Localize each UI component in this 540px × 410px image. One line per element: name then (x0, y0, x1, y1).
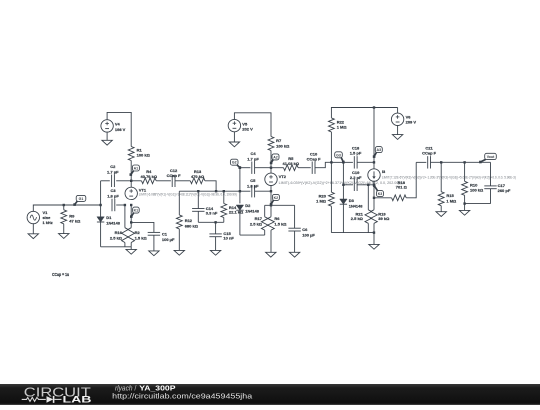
wire cathode column (130, 205, 132, 228)
node junction R21 top (367, 184, 369, 186)
svg-text:LIMIT(-6.039*(V(K2)-V(G2))^2+6: LIMIT(-6.039*(V(K2)-V(G2))^2+66.371*(V(K… (279, 181, 400, 185)
node label G2 (230, 159, 241, 169)
svg-text:470 kΩ: 470 kΩ (191, 174, 205, 179)
resistor R16 (110, 228, 128, 247)
node junction R14 top (223, 190, 225, 192)
svg-text:R2: R2 (135, 230, 141, 235)
wire V6 top (397, 108, 399, 114)
wire output row (416, 161, 426, 163)
svg-text:40.76 kΩ: 40.76 kΩ (141, 174, 158, 179)
svg-text:LIMIT(-6.088*(V(K1)-V(G1))^2+6: LIMIT(-6.088*(V(K1)-V(G1))^2+68.111*(V(K… (139, 193, 237, 197)
svg-text:1 MΩ: 1 MΩ (337, 125, 348, 130)
capacitor C5 (240, 178, 271, 197)
wire D2 bottom rail (240, 234, 265, 236)
ground under C15 (210, 250, 220, 255)
svg-text:100 kΩ: 100 kΩ (276, 143, 290, 148)
svg-text:Vout: Vout (487, 155, 495, 159)
svg-text:10 nF: 10 nF (223, 236, 234, 241)
resistor R13 (190, 169, 216, 191)
svg-text:1.5 kΩ: 1.5 kΩ (135, 235, 148, 240)
capacitor C14 (192, 191, 218, 222)
ground under R9 (59, 234, 69, 239)
resistor R12 (176, 191, 198, 250)
wire grid row G1 (64, 204, 101, 206)
capacitor C10 (307, 151, 332, 174)
behavioral source VT1 (125, 187, 237, 199)
svg-text:R9: R9 (69, 213, 75, 218)
ground under C1 (149, 251, 159, 256)
svg-text:R20: R20 (319, 193, 327, 198)
svg-text:A2: A2 (273, 155, 278, 159)
ground under V4 (102, 132, 112, 145)
capacitor C12 (167, 168, 191, 187)
svg-text:47 kΩ: 47 kΩ (69, 219, 81, 224)
svg-text:100 kΩ: 100 kΩ (137, 153, 151, 158)
wire grid2 column (239, 168, 241, 204)
wire grid column up to C2 (100, 181, 102, 205)
wire R21 column (367, 185, 369, 210)
svg-text:C6: C6 (302, 227, 308, 232)
svg-text:1 MΩ: 1 MΩ (446, 198, 457, 203)
node label K3 (373, 184, 384, 196)
svg-text:VT2: VT2 (279, 174, 287, 179)
svg-text:2.5 kΩ: 2.5 kΩ (250, 221, 263, 226)
node junction C1 tap (130, 221, 132, 223)
node label Vout (479, 153, 496, 163)
wire cathode3 column (373, 185, 375, 210)
wire V1 top to grid row (33, 205, 63, 212)
wire R16 column (124, 205, 126, 228)
wire bottom rail stage3 (331, 232, 374, 234)
node label A3 (373, 147, 383, 158)
node junction plate A2 (270, 167, 272, 169)
node junction D3 mid (342, 184, 344, 186)
svg-text:A3: A3 (377, 148, 382, 152)
ground under stage3 (369, 233, 379, 250)
svg-text:K1: K1 (134, 209, 139, 213)
svg-text:198 V: 198 V (115, 127, 126, 132)
svg-text:V5: V5 (242, 121, 248, 126)
node junction C15 top (214, 221, 216, 223)
node junction cathode K1 (130, 204, 132, 206)
node junction V1/R9 row (63, 204, 65, 206)
behavioral current source I3 (368, 169, 516, 181)
svg-text:41.03 kΩ: 41.03 kΩ (283, 161, 300, 166)
resistor R1 (128, 147, 150, 188)
svg-text:G1: G1 (79, 197, 84, 201)
node junction plate A1 (130, 180, 132, 182)
wire C14/R14 bottom rail (198, 221, 224, 223)
resistor R7 (268, 137, 290, 174)
svg-text:100 µF: 100 µF (302, 232, 315, 237)
wire R17 column (264, 205, 266, 217)
voltage source V1 (sine 1 kHz input) (27, 210, 53, 225)
svg-text:1.5 pF: 1.5 pF (350, 151, 362, 156)
svg-text:1.7 pF: 1.7 pF (107, 169, 119, 174)
svg-text:1 MΩ: 1 MΩ (316, 199, 327, 204)
ground under R2/R16 (126, 247, 136, 254)
ground under R6 (266, 230, 276, 257)
wire bottom rail stage1 (101, 246, 132, 248)
node junction grid3 (330, 161, 332, 163)
svg-text:701 Ω: 701 Ω (396, 185, 408, 190)
wire interstage row (179, 190, 240, 192)
node junction R16 top (124, 204, 126, 206)
node junction D3 top (342, 161, 344, 163)
resistor R9 (61, 205, 81, 234)
svg-text:1.8 pF: 1.8 pF (107, 193, 119, 198)
svg-text:http://circuitlab.com/ce9a4594: http://circuitlab.com/ce9a459455jha (112, 392, 253, 401)
logo diode glyph (47, 396, 54, 403)
ground under C6 (289, 252, 299, 257)
svg-text:CCap F: CCap F (167, 173, 182, 178)
svg-text:CCap F: CCap F (307, 157, 322, 162)
node junction cathode2 row (270, 190, 272, 192)
ground under V1 (28, 223, 38, 238)
ground under V6 (392, 125, 402, 139)
svg-text:R15: R15 (446, 193, 454, 198)
svg-text:1N4148: 1N4148 (349, 204, 363, 209)
svg-text:1 kHz: 1 kHz (43, 220, 53, 225)
svg-text:R7: R7 (276, 138, 282, 143)
diode D1 (97, 205, 121, 247)
node label K2 (270, 194, 280, 205)
wire V4 to R1 (107, 112, 131, 146)
node junction K2 tap (270, 204, 272, 206)
resistor R21 (351, 210, 372, 233)
svg-text:2.2 pF: 2.2 pF (350, 175, 362, 180)
svg-text:C1: C1 (162, 231, 168, 236)
svg-text:2.5 kΩ: 2.5 kΩ (351, 216, 364, 221)
svg-text:1.7 pF: 1.7 pF (247, 156, 259, 161)
capacitor C18 (343, 145, 374, 168)
capacitor C4 (240, 151, 271, 174)
node junction C14 top (197, 190, 199, 192)
svg-text:R12: R12 (185, 218, 193, 223)
resistor R6 (268, 216, 288, 230)
wire V5 to R7 (234, 113, 271, 137)
resistor R17 (250, 216, 268, 235)
svg-text:CCap F: CCap F (422, 151, 437, 156)
capacitor C21 (422, 146, 490, 169)
node junction rail3 (373, 231, 375, 233)
ground under R10 (459, 204, 469, 216)
wire I3 bottom (373, 181, 375, 185)
svg-text:202 V: 202 V (242, 127, 253, 132)
svg-text:R16: R16 (115, 230, 123, 235)
logo resistor glyph (22, 397, 46, 401)
svg-text:680 kΩ: 680 kΩ (185, 223, 199, 228)
resistor R15 (438, 162, 457, 211)
svg-text:1N4148: 1N4148 (245, 209, 259, 214)
capacitor C19 (343, 170, 374, 191)
svg-text:R17: R17 (255, 216, 263, 221)
diode D2 (236, 203, 260, 235)
node label K1 (130, 207, 139, 218)
svg-text:100 µF: 100 µF (162, 237, 175, 242)
resistor R10 (462, 162, 484, 203)
node junction R10 top (463, 161, 465, 163)
svg-text:K2: K2 (274, 196, 279, 200)
wire plate3 column (373, 108, 375, 170)
annotation CCap value (52, 272, 69, 277)
svg-text:1.8 pF: 1.8 pF (247, 183, 259, 188)
svg-text:A1: A1 (134, 166, 139, 170)
wire R10/C17 bottom rail (465, 203, 491, 205)
svg-text:100 kΩ: 100 kΩ (470, 188, 484, 193)
svg-text:CCap = 1u: CCap = 1u (52, 272, 69, 277)
node junction R15 top (440, 161, 442, 163)
footer credits (0, 384, 430, 405)
resistor R19 (371, 210, 390, 233)
capacitor C3 (107, 188, 125, 211)
footer bar (0, 384, 540, 405)
node label A1 (130, 165, 140, 176)
voltage source V4 (101, 120, 126, 132)
svg-text:R22: R22 (337, 119, 345, 124)
resistor R20 (316, 162, 334, 232)
wire K2 tap row (265, 204, 295, 206)
svg-text:G2: G2 (232, 161, 237, 165)
wire cathode2 column (270, 185, 272, 217)
resistor R4 (131, 169, 171, 184)
node junction R10 bottom (463, 202, 465, 204)
node junction R13 drop (215, 190, 217, 192)
voltage source V6 (391, 113, 416, 125)
capacitor C15 (209, 222, 234, 250)
ground under R12 (174, 250, 184, 255)
svg-text:LIMIT(7.12E-6*(V(K3)-V(G3))^2+: LIMIT(7.12E-6*(V(K3)-V(G3))^2+-1.20E-3*(… (382, 176, 516, 180)
wire top rail stage3 (331, 108, 397, 118)
voltage source V5 (228, 119, 253, 131)
ground under V5 (229, 132, 239, 147)
svg-text:2.5 kΩ: 2.5 kΩ (110, 235, 123, 240)
resistor R2 (128, 228, 148, 247)
svg-text:V4: V4 (115, 122, 121, 127)
wire grid3 row (331, 161, 343, 163)
node G1 junction (99, 204, 101, 206)
node junction grid2 row (239, 190, 241, 192)
svg-text:D3: D3 (349, 198, 355, 203)
node junction cathode3 (373, 184, 375, 186)
behavioral source VT2 (265, 173, 400, 185)
node label A2 (270, 154, 279, 164)
node junction plate A3 (373, 161, 375, 163)
node junction G2 top (239, 167, 241, 169)
svg-text:209 V: 209 V (406, 120, 417, 125)
capacitor C1 (148, 231, 175, 251)
svg-text:D2: D2 (245, 203, 251, 208)
svg-text:K3: K3 (378, 192, 383, 196)
svg-text:39 kΩ: 39 kΩ (378, 216, 390, 221)
svg-text:3.3 nF: 3.3 nF (206, 211, 218, 216)
ground under R15 (436, 212, 446, 217)
node junction top rail (373, 106, 375, 108)
CircuitLab logo (0, 384, 110, 405)
diode D3 (340, 162, 364, 232)
resistor R5 (271, 156, 311, 171)
svg-text:260 pF: 260 pF (498, 188, 511, 193)
resistor R18 (374, 162, 416, 200)
wire to C1 (131, 222, 154, 232)
capacitor C2 (101, 164, 132, 187)
node label G3 (335, 152, 345, 163)
capacitor C17 (484, 162, 511, 203)
node junction R18 tap (373, 197, 375, 199)
capacitor C6 (288, 205, 315, 252)
resistor R22 (329, 118, 348, 162)
node label G1 (73, 195, 85, 206)
svg-text:1.5 kΩ: 1.5 kΩ (274, 221, 287, 226)
svg-text:R6: R6 (274, 216, 280, 221)
svg-text:1N4148: 1N4148 (106, 221, 120, 226)
resistor R14 (221, 191, 244, 222)
svg-text:G3: G3 (336, 153, 341, 157)
svg-text:D1: D1 (106, 215, 112, 220)
